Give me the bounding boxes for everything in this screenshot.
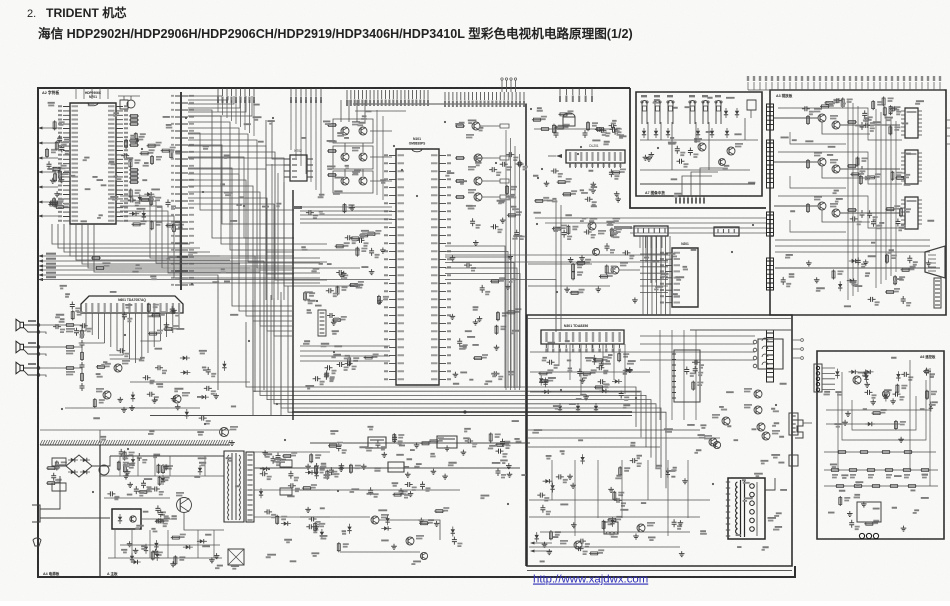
video filter row 2 (255, 467, 520, 469)
dense pin label row above central IC - group A (347, 90, 428, 99)
row3 parts (371, 481, 423, 496)
RGB drive transistors V205/V206 (341, 177, 367, 185)
audio amplifier IC N601 TDA7057AQ (81, 296, 183, 313)
top border pin stub row group 2 (291, 88, 321, 96)
audio IC pin fanout wires (86, 313, 179, 363)
audio processor IC N201 (672, 248, 698, 307)
IC N302 on row2 (388, 462, 404, 472)
buffer transistor V104 (474, 193, 482, 201)
audio long wires (40, 429, 230, 431)
speaker feed wires (40, 325, 82, 368)
snubber diodes (161, 468, 202, 482)
left frame input arrows upper (38, 127, 43, 218)
sound IF components near border (489, 155, 523, 195)
vertical pair to deflection IC (555, 198, 557, 330)
audio section transistor V601 (114, 364, 122, 372)
deflection right connectors (789, 413, 798, 466)
flyback HV lead (765, 478, 775, 490)
junction dot on bus (463, 410, 466, 413)
secondary rectifier rows (254, 452, 330, 517)
center section left border (292, 190, 294, 420)
row 3 wire (300, 489, 460, 491)
EW transistor V432 (762, 432, 770, 440)
A3 top components row (802, 97, 897, 111)
MCU left side components (47, 120, 65, 207)
dense pin label row above central IC - group B (445, 92, 524, 100)
power output connector XP802 (246, 452, 254, 522)
scan noise texture (0, 0, 1, 1)
sound/remote board box A6 (817, 351, 944, 539)
EEPROM wires (266, 120, 284, 165)
vertical connector small strip left of IC (318, 310, 326, 336)
secondary diodes and caps (260, 453, 328, 532)
main filter capacitor (99, 465, 109, 475)
filter module Z302 (437, 436, 457, 448)
tuner diodes (724, 111, 739, 115)
south deflection transistor V402 (574, 541, 582, 549)
east mid transistor V211 (611, 266, 619, 274)
deflection IC N301 TDA8356 (541, 330, 624, 344)
power board hatched divider line (40, 440, 230, 445)
wire bundle connector lower fanout (188, 168, 292, 336)
video filter row 1 (310, 442, 530, 444)
bus bundle central top wrap (300, 207, 392, 223)
tuner bottom pin stubs (676, 196, 704, 204)
flyback pins (726, 482, 730, 536)
luma delay module Z301 (368, 437, 386, 448)
A6 internal verticals (838, 360, 930, 486)
deflection right stubs (792, 340, 800, 358)
input line 6 continuation right of IC (445, 280, 556, 333)
XS601 connector (634, 226, 668, 236)
deflection corner output stubs (530, 542, 535, 553)
driver transformer T802 (228, 549, 244, 565)
stub group right of main border top (560, 88, 592, 95)
speaker coupling parts (65, 325, 82, 391)
main board border (outer frame) (38, 88, 795, 577)
long horizontal wires from center to deflection/A3 (445, 218, 670, 262)
input line terminators (91, 258, 105, 268)
deflection south wires (529, 500, 710, 547)
east mid transistor V212 (593, 249, 600, 256)
tuner transistor V1 (698, 143, 706, 151)
A6 transistor V901 (853, 376, 861, 384)
buffer transistor V101 (472, 122, 480, 130)
power switching transistor V801 (177, 498, 192, 513)
horizontal mid-left wires (300, 346, 390, 361)
deflection EW sub-circuit box (674, 350, 700, 402)
A3 channel feedback loops (778, 108, 902, 232)
deflection right internal wires (640, 330, 755, 420)
deflection section box (527, 315, 792, 566)
deflection IC lower parts (538, 352, 621, 398)
power wires (110, 455, 224, 457)
RGB drive transistors V201/V202 (341, 127, 367, 135)
horizontal drive transistor V401 (637, 524, 645, 532)
bus wire bundle wrapping under central IC (246, 286, 666, 488)
deflection mid wires (528, 352, 720, 438)
long wires from MCU bottom pins (52, 224, 260, 272)
MCU right side resistor rows (129, 116, 139, 182)
south area wires (300, 517, 440, 552)
A6 left connector circles (814, 364, 822, 392)
switch mode transformer T801 (224, 451, 244, 522)
scattered component value labels (texture) (47, 97, 938, 567)
tuner passives (677, 146, 691, 162)
CRT board box A3 (770, 90, 946, 315)
ground symbol at hatch end (231, 440, 233, 443)
main border right edge upper (630, 88, 766, 208)
A3 RGB output ICs on heatsink (905, 108, 918, 229)
board connector XP2 vertical strip (180, 92, 182, 290)
speaker BL1 (16, 319, 24, 331)
IF wires and parts middle (547, 181, 619, 199)
A3 vertical bus lines (848, 100, 896, 300)
left frame input lines (AV in) (38, 254, 43, 281)
nested vertical bundle x 505-520 (506, 130, 520, 390)
extra junction dots (61, 108, 777, 505)
RGB pair bias parts (327, 125, 337, 175)
ceramic filter Z201 (554, 117, 588, 135)
A6 upper parts (835, 370, 933, 427)
row 1 passives (328, 433, 505, 452)
A6 nested wire loops (842, 372, 926, 440)
tuner transistor V2 (727, 147, 735, 155)
MCU right small parts (132, 192, 151, 217)
wires east mid (528, 264, 640, 286)
wire bundle connector to top ticks (188, 96, 252, 116)
buffer transistor V103 (474, 177, 482, 185)
wires from main border to A3 connectors (630, 218, 766, 233)
XS602 connector (714, 227, 739, 236)
buffer outputs to section border (455, 126, 465, 197)
vertical feed wires to RGB pairs (341, 100, 365, 176)
deflection diode rows (558, 406, 598, 410)
audio section passives (53, 302, 212, 419)
row4 south transistors (316, 516, 436, 560)
power input wiring (46, 456, 110, 518)
audio processor feed wires (640, 236, 668, 292)
central IC decoupling left (305, 203, 379, 380)
east mid passives (567, 255, 635, 300)
deflection south parts (537, 461, 674, 554)
crystal near MCU (120, 100, 135, 109)
bus bundle from IC right pins to border (445, 246, 520, 388)
AC mains plug XP1 (32, 505, 40, 522)
deflection yoke connector XS402 (758, 339, 783, 369)
RGB drive transistors V203/V204 (341, 153, 367, 161)
drive transformer T401 (604, 522, 618, 534)
buffer transistor V102 (474, 154, 482, 162)
vertical wires x 645-660 to deflection (643, 236, 670, 315)
degauss wires (803, 422, 812, 424)
audio section transistor V603 (173, 395, 181, 403)
deflection inner border step (690, 329, 792, 331)
tuner diode row (642, 131, 729, 135)
EW transistor V431 (709, 438, 717, 446)
A6 sub box (857, 502, 881, 522)
speaker BL3 (16, 362, 24, 374)
A6 row labels (832, 474, 928, 478)
IF transistor V201b (588, 222, 596, 230)
tuner small box component (747, 100, 756, 110)
extra nested stair lines (188, 133, 294, 252)
flyback transformer T444 (728, 478, 765, 539)
MCU top stubs to frame (76, 88, 108, 99)
tick row along top right (A3 feed lines) (748, 82, 940, 90)
wire bundle MCU to main board (stair steps) (188, 110, 360, 286)
A3 right edge stubs (946, 120, 950, 144)
audio section transistor V604 (220, 428, 229, 437)
A3 left edge connectors (767, 104, 774, 382)
EEPROM IC N702 24C08 (290, 155, 307, 181)
tuner transistor V3 (719, 159, 726, 166)
main chroma/jungle IC N101 (396, 149, 439, 385)
degaussing coil connector (795, 420, 803, 438)
CRT socket pin strip (934, 278, 941, 308)
A6 bottom jacks (859, 533, 878, 538)
microcontroller IC N701 HDP2906C (70, 103, 116, 224)
row 2 passives (308, 463, 509, 476)
A3 channel wiring (774, 118, 900, 213)
A6 lower parts (840, 496, 874, 528)
tuner bottom nested corners (682, 168, 724, 196)
voltage regulators (280, 460, 292, 495)
power regulation opto box (112, 509, 141, 529)
central IC right-side components (460, 215, 517, 373)
stub group with circles near x=505 above border (502, 80, 516, 92)
MCU lower stair bundle (120, 196, 320, 283)
delay line DL201 (566, 150, 625, 163)
speaker BL2 (16, 341, 24, 353)
CRT socket (925, 246, 945, 278)
A3 amplifier channel transistors (818, 114, 840, 217)
wires from XS601 down (640, 236, 662, 248)
A6 transistor V902 (882, 390, 889, 397)
bridge rectifier D801 (66, 455, 92, 477)
A6 mid horizontal wires (826, 410, 930, 424)
top border pin stub row left group (218, 88, 254, 96)
A6 resistor rows (824, 470, 938, 486)
A3 horizontal links (775, 240, 930, 252)
vertical bundle left of central box (266, 155, 284, 300)
tuner board box A7 (636, 92, 762, 196)
mains filter components (46, 461, 57, 484)
deflection internal verticals (548, 344, 625, 394)
inner section border x=526 (525, 104, 527, 566)
thick bus line under center (292, 411, 632, 413)
speaker wires and connector pins (24, 325, 38, 375)
vertical output transistors cluster (713, 390, 765, 449)
power/main divider vertical (99, 445, 101, 577)
audio section transistor V602 (103, 391, 111, 399)
power small parts field (107, 449, 180, 566)
A3 bottom circuit row (775, 267, 940, 269)
tuner internal wires (640, 118, 758, 170)
tuner filter coils (642, 101, 721, 125)
IF filter components top (532, 114, 620, 133)
